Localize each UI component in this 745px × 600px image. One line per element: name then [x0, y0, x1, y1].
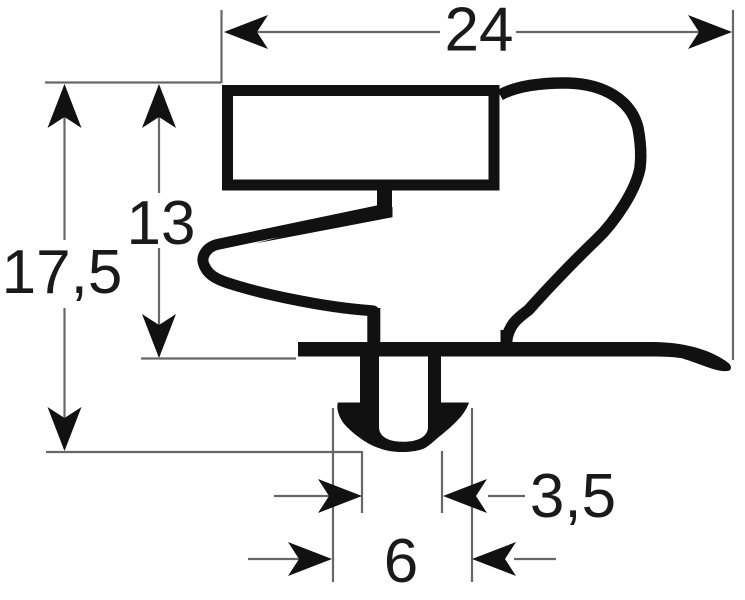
extension line left of 24 [220, 10, 222, 83]
gasket profile: pocket-to-hinge stub [377, 186, 392, 211]
extension line at 13 bottom [141, 357, 296, 359]
gasket profile: mushroom foot with slot [337, 354, 469, 452]
dimension line 6 [248, 558, 300, 560]
arrow 3,5 left (pointing right) [318, 479, 362, 513]
gasket profile: magnet pocket rectangle [228, 91, 495, 186]
arrow 24 left [224, 15, 268, 49]
svg-text:6: 6 [384, 527, 418, 596]
arrow 24 right [688, 15, 732, 49]
svg-text:3,5: 3,5 [530, 462, 616, 531]
arrow 17,5 top [48, 84, 82, 128]
extension line 6 right [471, 408, 473, 582]
extension line at 17,5 bottom [46, 451, 362, 453]
gasket profile: base bar with drooping tail [298, 342, 731, 371]
extension line 3,5 right [441, 451, 443, 513]
arrow 3,5 right (pointing left) [443, 479, 487, 513]
arrow 17,5 bottom [48, 407, 82, 451]
dimension line 3,5 [274, 495, 330, 497]
extension line top (17,5 / 13) [45, 81, 221, 83]
dimension line 17,5 [63, 86, 65, 240]
dimension line 13 [158, 86, 160, 193]
svg-text:24: 24 [445, 0, 514, 65]
dimension line 24 [226, 31, 440, 33]
gasket profile: hinge elbow fillet [255, 207, 393, 244]
gasket profile: balloon-to-base landing [501, 330, 513, 344]
gasket profile: sealing balloon bulb [500, 83, 641, 341]
extension line 3,5 left [361, 451, 363, 513]
gasket profile: zigzag hinge [203, 210, 385, 343]
arrow 6 right (pointing left) [472, 542, 516, 576]
arrow 13 top [142, 84, 176, 128]
gasket profile: hinge-to-base vertical [367, 308, 380, 344]
svg-text:17,5: 17,5 [2, 238, 123, 307]
arrow 6 left (pointing right) [288, 542, 332, 576]
svg-text:13: 13 [127, 189, 196, 258]
extension line right of 24 [732, 10, 734, 360]
arrow 13 bottom [142, 314, 176, 358]
extension line 6 left [332, 408, 334, 582]
